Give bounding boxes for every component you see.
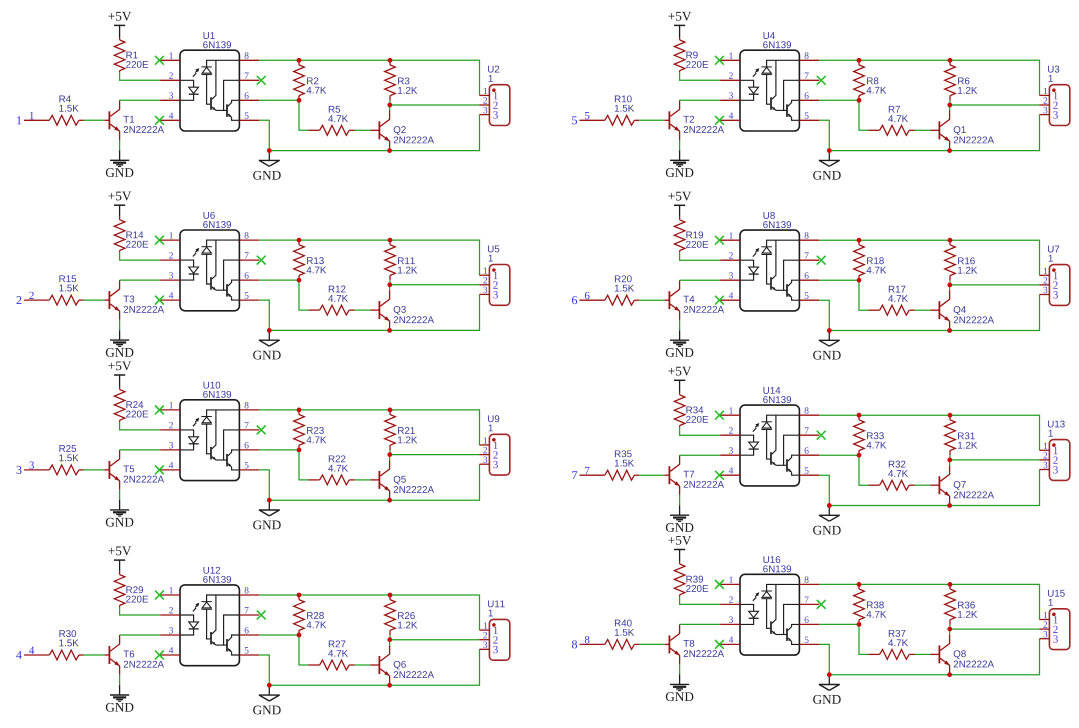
junction R pullup2 / Q collector / conn pin2 — [947, 103, 952, 108]
power +5V — [668, 367, 691, 392]
junction ground node — [267, 683, 272, 688]
wire T collector to pin 3 — [120, 279, 161, 281]
pin 7 — [239, 252, 259, 260]
photodiode inside optocoupler — [761, 415, 799, 459]
photodiode inside optocoupler — [201, 240, 239, 284]
pin 4 — [160, 112, 180, 120]
junction top rail at R pullup2 — [388, 58, 393, 63]
wire Q collector to node — [389, 455, 391, 461]
internal base wire pin 7 — [224, 260, 240, 290]
wire Q collector to node — [949, 629, 951, 635]
wire ground node to GND — [828, 152, 830, 160]
wire ground node to GND — [828, 332, 830, 340]
resistor R37 4.7K series — [868, 630, 914, 659]
no-connect pin 1 — [155, 56, 164, 65]
resistor R34 220E — [674, 392, 708, 427]
wire pin 6 — [819, 279, 859, 281]
wire Q collector to node — [389, 640, 391, 646]
resistor R15 1.5K — [49, 275, 83, 305]
wire R to T base — [84, 119, 105, 121]
resistor R24 220E — [114, 387, 148, 422]
conn pin 2 — [480, 277, 498, 289]
wire pin6 down to series R — [859, 280, 868, 310]
transistor T4 2N2222A — [665, 280, 724, 320]
junction R pullup2 / Q collector / conn pin2 — [387, 637, 392, 642]
wire series R to Q base — [355, 129, 371, 131]
wire port to R — [24, 469, 49, 471]
resistor R8 4.7K — [854, 60, 887, 100]
ground GND triangle — [813, 160, 841, 179]
internal base wire pin 7 — [784, 80, 800, 110]
photodiode inside optocoupler — [761, 60, 799, 104]
pin 8 — [799, 407, 819, 415]
wire R pullup2 to junction — [389, 450, 391, 455]
wire T emitter to ground — [679, 320, 681, 330]
pin 2 — [160, 422, 180, 430]
resistor R4 1.5K — [49, 96, 83, 126]
connector U9 — [488, 415, 510, 475]
ground GND earth under T — [106, 330, 134, 357]
transistor Q2 2N2222A — [370, 111, 434, 149]
resistor R9 220E — [674, 37, 708, 72]
junction top rail at R pullup2 — [948, 238, 953, 243]
wire pin 8 top rail — [259, 595, 479, 630]
internal base wire pin 7 — [224, 80, 240, 110]
pin 7 — [799, 252, 819, 260]
conn pin 1 — [1040, 443, 1058, 455]
LED inside optocoupler — [740, 260, 759, 280]
junction ground node — [827, 672, 832, 677]
junction R pullup2 / Q collector / conn pin2 — [387, 103, 392, 108]
wire 220E to pin 2 — [680, 427, 721, 435]
pin 1 — [160, 52, 180, 60]
conn pin 3 — [480, 107, 498, 119]
junction ground node — [827, 503, 832, 508]
connector U11 — [488, 600, 510, 660]
photodiode inside optocoupler — [761, 240, 799, 284]
pin 4 — [720, 637, 740, 645]
transistor Q8 2N2222A — [930, 635, 994, 673]
pin 8 — [799, 576, 819, 584]
junction R pullup2 / Q collector / conn pin2 — [947, 283, 952, 288]
port 4 — [16, 651, 22, 659]
wire T emitter to ground — [679, 495, 681, 505]
ground GND earth under T — [106, 685, 134, 712]
wire T emitter to ground — [679, 140, 681, 150]
pin 8 — [799, 232, 819, 240]
wire pin6 down to series R — [299, 450, 308, 480]
conn pin 2 — [1040, 277, 1058, 289]
LED inside optocoupler — [740, 435, 759, 455]
pin 7 — [799, 427, 819, 435]
light arrow inside optocoupler — [753, 423, 759, 432]
junction top rail at R pullup2 — [388, 593, 393, 598]
junction pin 6 — [857, 453, 862, 458]
pin 6 — [799, 617, 819, 625]
internal transistor 1 — [771, 240, 787, 290]
wire T emitter to ground — [679, 664, 681, 674]
junction top rail at R pullup1 — [297, 408, 302, 413]
wire Q emitter to bottom rail — [389, 148, 391, 150]
wire Q collector to node — [949, 460, 951, 466]
pin 6 — [239, 272, 259, 280]
LED inside optocoupler — [180, 430, 199, 450]
resistor R29 220E — [114, 572, 148, 607]
conn pin 3 — [480, 287, 498, 299]
pin 5 — [239, 292, 259, 300]
wire pin 8 top rail — [819, 415, 1039, 450]
bottom rail wire — [269, 294, 479, 330]
wire pin 6 — [259, 634, 299, 636]
transistor T3 2N2222A — [105, 280, 164, 320]
no-connect pin 4 — [715, 116, 724, 125]
resistor R18 4.7K — [854, 240, 887, 280]
light arrow inside optocoupler — [753, 592, 759, 601]
no-connect pin 4 — [715, 640, 724, 649]
net label 6 — [585, 292, 590, 299]
wire node to conn pin 2 — [390, 104, 480, 106]
conn pin 2 — [1040, 621, 1058, 633]
no-connect pin 7 — [257, 426, 266, 435]
transistor T5 2N2222A — [105, 450, 164, 490]
wire ground node to GND — [828, 507, 830, 515]
ground GND triangle — [253, 510, 281, 529]
connector U7 — [1048, 246, 1070, 306]
wire pin 5 to ground node — [259, 300, 269, 330]
pin 6 — [799, 447, 819, 455]
wire port to R — [24, 654, 49, 656]
wire Q collector to node — [949, 285, 951, 291]
wire Q emitter to bottom rail — [949, 672, 951, 674]
net label 3 — [29, 462, 34, 469]
wire R pullup2 to junction — [949, 280, 951, 285]
wire series R to Q base — [355, 664, 371, 666]
pin 8 — [239, 587, 259, 595]
junction pin 6 — [297, 278, 302, 283]
photodiode inside optocoupler — [761, 584, 799, 628]
op-amp U16 6N139 optocoupler — [740, 556, 799, 655]
wire R pullup2 to junction — [389, 280, 391, 285]
pin 2 — [720, 597, 740, 605]
pin 5 — [799, 467, 819, 475]
net label 2 — [29, 292, 33, 299]
junction top rail at R pullup1 — [857, 238, 862, 243]
wire R pullup2 to junction — [949, 455, 951, 460]
net label 7 — [585, 467, 589, 474]
wire pin6 down to series R — [859, 100, 868, 130]
LED inside optocoupler — [180, 80, 199, 100]
wire R to T base — [639, 643, 665, 645]
conn pin 3 — [1040, 462, 1058, 474]
junction bottom rail at Q emitter — [387, 683, 392, 688]
no-connect pin 4 — [155, 466, 164, 475]
pin 7 — [239, 72, 259, 80]
junction bottom rail at Q emitter — [387, 148, 392, 153]
net label 4 — [29, 647, 34, 654]
junction ground node — [267, 148, 272, 153]
no-connect pin 1 — [155, 591, 164, 600]
pin 5 — [799, 112, 819, 120]
ground GND triangle — [813, 515, 841, 534]
connector U15 — [1048, 590, 1070, 650]
light arrow inside optocoupler — [193, 68, 199, 77]
pin 2 — [160, 72, 180, 80]
pin 1 — [160, 232, 180, 240]
pin 3 — [160, 442, 180, 450]
pin 3 — [160, 627, 180, 635]
resistor R1 220E — [114, 37, 148, 72]
internal transistor 1 — [771, 60, 787, 110]
light arrow inside optocoupler — [193, 603, 199, 612]
pin 3 — [160, 92, 180, 100]
resistor R28 4.7K — [294, 595, 327, 635]
wire pin 5 to ground node — [819, 475, 829, 505]
pin 6 — [239, 627, 259, 635]
port 5 — [572, 116, 577, 124]
op-amp U14 6N139 optocoupler — [740, 387, 799, 486]
junction top rail at R pullup2 — [948, 582, 953, 587]
pin 5 — [239, 112, 259, 120]
junction ground node — [267, 498, 272, 503]
resistor R12 4.7K series — [308, 286, 354, 315]
internal transistor 2 — [787, 100, 799, 120]
internal base wire pin 7 — [784, 435, 800, 465]
ground GND earth under T — [106, 500, 134, 527]
light arrow inside optocoupler — [753, 68, 759, 77]
wire T collector to pin 3 — [120, 634, 161, 636]
junction bottom rail at Q emitter — [947, 672, 952, 677]
wire R to T base — [639, 119, 665, 121]
wire pin 8 top rail — [819, 60, 1039, 95]
wire 220E to pin 2 — [120, 72, 161, 80]
bottom rail wire — [269, 115, 479, 151]
wire node to conn pin 2 — [950, 284, 1040, 286]
junction top rail at R pullup2 — [948, 58, 953, 63]
conn pin 2 — [1040, 452, 1058, 464]
resistor R13 4.7K — [294, 240, 327, 280]
no-connect pin 1 — [155, 406, 164, 415]
wire pin 6 — [819, 454, 859, 456]
wire pin 8 top rail — [259, 240, 479, 275]
wire series R to Q base — [355, 309, 371, 311]
wire R to T base — [84, 299, 105, 301]
conn pin 3 — [480, 642, 498, 654]
wire pin 6 — [259, 449, 299, 451]
wire ground node to GND — [268, 152, 270, 160]
pin 6 — [239, 92, 259, 100]
wire pin6 down to series R — [299, 635, 308, 665]
wire pin 6 — [259, 279, 299, 281]
wire R to T base — [639, 474, 665, 476]
pin 4 — [160, 647, 180, 655]
ground GND earth under T — [666, 505, 694, 532]
wire pin6 down to series R — [859, 455, 868, 485]
wire pin 6 — [259, 99, 299, 101]
junction bottom rail at Q emitter — [947, 148, 952, 153]
pin 7 — [799, 72, 819, 80]
no-connect pin 7 — [817, 256, 826, 265]
LED inside optocoupler — [180, 615, 199, 635]
bottom rail wire — [829, 295, 1039, 331]
photodiode inside optocoupler — [201, 410, 239, 454]
pin 2 — [160, 252, 180, 260]
internal transistor 1 — [211, 410, 227, 460]
ground GND triangle — [253, 340, 281, 359]
transistor Q6 2N2222A — [370, 645, 434, 683]
wire series R to Q base — [915, 309, 931, 311]
port 7 — [572, 471, 577, 479]
internal transistor 2 — [227, 635, 239, 655]
pin 1 — [720, 232, 740, 240]
resistor R20 1.5K — [605, 275, 639, 305]
no-connect pin 1 — [715, 580, 724, 589]
net label 1 — [30, 112, 34, 119]
pin 4 — [720, 467, 740, 475]
wire Q collector to node — [389, 105, 391, 111]
no-connect pin 1 — [155, 236, 164, 245]
resistor R19 220E — [674, 217, 708, 252]
wire 220E to pin 2 — [120, 422, 161, 430]
resistor R5 4.7K series — [308, 106, 354, 135]
power +5V — [108, 361, 131, 386]
wire series R to Q base — [355, 479, 371, 481]
pin 8 — [239, 232, 259, 240]
resistor R22 4.7K series — [308, 455, 354, 484]
net label 8 — [585, 636, 590, 643]
wire R pullup2 to junction — [949, 625, 951, 630]
wire node to conn pin 2 — [390, 639, 480, 641]
internal base wire pin 7 — [224, 615, 240, 645]
pin 3 — [720, 272, 740, 280]
junction ground node — [267, 328, 272, 333]
light arrow inside optocoupler — [753, 248, 759, 257]
wire Q emitter to bottom rail — [949, 328, 951, 330]
junction ground node — [827, 328, 832, 333]
pin 3 — [720, 92, 740, 100]
resistor R14 220E — [114, 217, 148, 252]
LED inside optocoupler — [740, 80, 759, 100]
wire R to T base — [639, 299, 665, 301]
wire series R to Q base — [915, 653, 931, 655]
junction top rail at R pullup1 — [297, 238, 302, 243]
pin 7 — [239, 607, 259, 615]
junction top rail at R pullup1 — [297, 593, 302, 598]
port 1 — [17, 116, 21, 124]
wire 220E to pin 2 — [680, 252, 721, 260]
resistor R38 4.7K — [854, 584, 887, 624]
wire pin 6 — [819, 623, 859, 625]
resistor R6 1.2K — [945, 60, 978, 100]
junction pin 6 — [297, 448, 302, 453]
transistor Q4 2N2222A — [930, 290, 994, 328]
no-connect pin 7 — [257, 76, 266, 85]
wire R to T base — [84, 654, 105, 656]
transistor T6 2N2222A — [105, 635, 164, 675]
internal transistor 1 — [211, 240, 227, 290]
light arrow inside optocoupler — [193, 418, 199, 427]
wire port to R — [24, 119, 49, 121]
internal transistor 2 — [227, 280, 239, 300]
op-amp U12 6N139 optocoupler — [180, 567, 239, 666]
junction bottom rail at Q emitter — [947, 503, 952, 508]
junction ground node — [827, 148, 832, 153]
conn pin 3 — [1040, 287, 1058, 299]
pin 3 — [720, 617, 740, 625]
bottom rail wire — [829, 470, 1039, 506]
resistor R25 1.5K — [49, 445, 83, 475]
wire ground node to GND — [268, 502, 270, 510]
power +5V — [668, 12, 691, 37]
no-connect pin 7 — [257, 256, 266, 265]
connector U3 — [1048, 66, 1070, 126]
wire Q emitter to bottom rail — [949, 148, 951, 150]
no-connect pin 4 — [155, 296, 164, 305]
bottom rail wire — [829, 639, 1039, 675]
junction top rail at R pullup1 — [297, 58, 302, 63]
wire T emitter to ground — [119, 320, 121, 330]
conn pin 1 — [480, 268, 498, 280]
transistor T2 2N2222A — [665, 100, 724, 140]
wire T collector to pin 3 — [680, 623, 721, 625]
resistor R39 220E — [674, 561, 708, 596]
wire T collector to pin 3 — [120, 99, 161, 101]
wire node to conn pin 2 — [390, 284, 480, 286]
wire series R to Q base — [915, 129, 931, 131]
resistor R2 4.7K — [294, 60, 327, 100]
wire R to T base — [84, 469, 105, 471]
connector U13 — [1048, 421, 1070, 481]
pin 4 — [160, 292, 180, 300]
pin 1 — [160, 587, 180, 595]
wire pin 5 to ground node — [259, 470, 269, 500]
wire T collector to pin 3 — [680, 279, 721, 281]
conn pin 2 — [1040, 97, 1058, 109]
wire pin 8 top rail — [259, 60, 479, 95]
resistor R10 1.5K — [605, 95, 639, 125]
wire pin 5 to ground node — [259, 120, 269, 150]
power +5V — [108, 547, 131, 572]
no-connect pin 4 — [155, 116, 164, 125]
wire R pullup2 to junction — [949, 100, 951, 105]
ground GND triangle — [253, 695, 281, 714]
wire pin 8 top rail — [819, 584, 1039, 619]
pin 7 — [239, 422, 259, 430]
conn pin 1 — [1040, 612, 1058, 624]
wire R pullup2 to junction — [389, 100, 391, 105]
internal transistor 2 — [787, 624, 799, 644]
wire Q collector to node — [949, 105, 951, 111]
internal base wire pin 7 — [784, 260, 800, 290]
pin 1 — [720, 577, 740, 585]
junction top rail at R pullup2 — [388, 238, 393, 243]
pin 7 — [799, 597, 819, 605]
conn pin 1 — [480, 437, 498, 449]
resistor R11 1.2K — [385, 240, 418, 280]
power +5V — [668, 192, 691, 217]
op-amp U10 6N139 optocoupler — [180, 382, 239, 481]
no-connect pin 4 — [715, 296, 724, 305]
junction pin 6 — [857, 98, 862, 103]
ground GND earth under T — [106, 150, 134, 177]
wire series R to Q base — [915, 484, 931, 486]
wire T emitter to ground — [119, 140, 121, 150]
wire pin 6 — [819, 99, 859, 101]
conn pin 2 — [480, 632, 498, 644]
wire port to R — [580, 643, 605, 645]
wire Q emitter to bottom rail — [389, 328, 391, 330]
resistor R16 1.2K — [945, 240, 978, 280]
pin 8 — [799, 52, 819, 60]
